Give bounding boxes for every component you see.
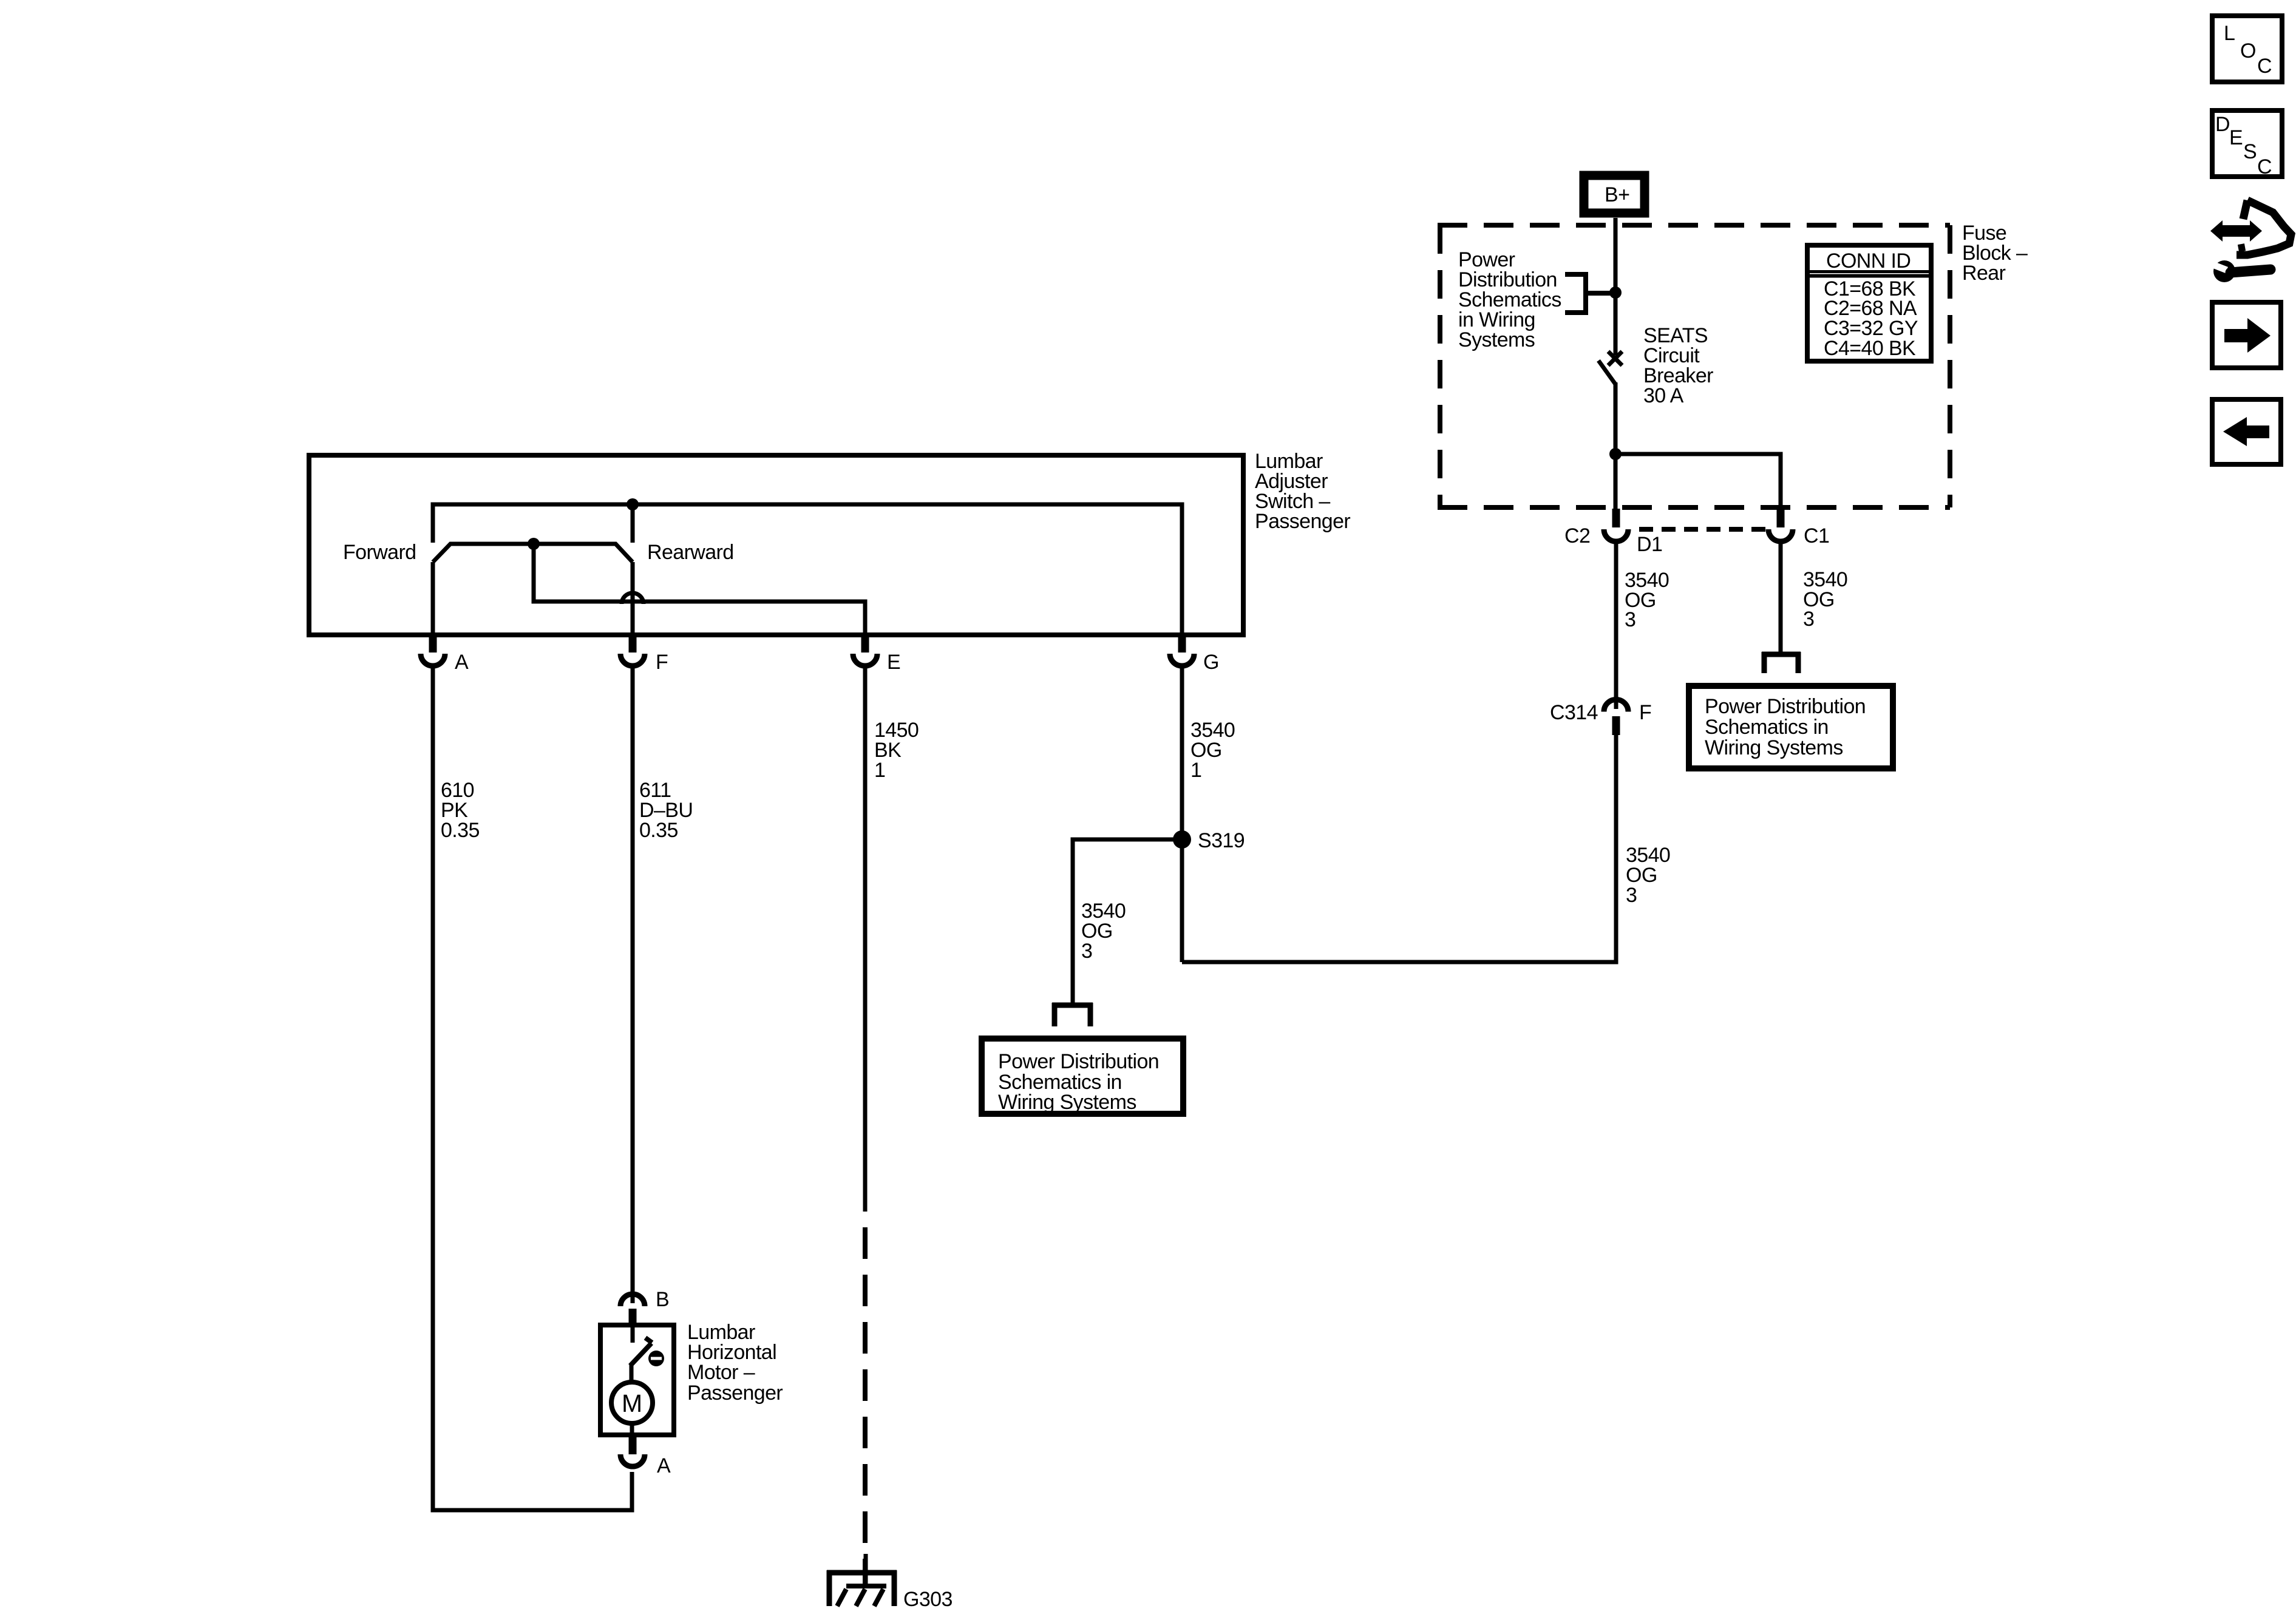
bracket to Power Distribution note	[1565, 274, 1615, 313]
svg-text:3: 3	[1626, 884, 1637, 907]
svg-text:C1: C1	[1804, 524, 1829, 547]
icon service arrow-wrench	[2210, 200, 2291, 282]
label 3540 OG 3 (above C314)	[1625, 569, 1669, 631]
svg-text:D: D	[2215, 113, 2230, 136]
label 3540 OG 3 (below C314)	[1626, 844, 1670, 907]
connector boundary dashed line	[1639, 527, 1768, 532]
svg-text:C2: C2	[1564, 524, 1590, 547]
wire armature to pin F	[631, 562, 635, 635]
svg-text:0.35: 0.35	[441, 819, 480, 842]
svg-text:Rearward: Rearward	[647, 541, 734, 564]
label SEATS Circuit Breaker 30 A	[1643, 324, 1713, 407]
motor pin A	[620, 1436, 671, 1477]
off-page staple (S319 branch)	[1052, 1003, 1093, 1026]
label 3540 OG 3 (under C1)	[1803, 568, 1847, 631]
svg-text:E: E	[2229, 126, 2243, 149]
svg-text:B+: B+	[1605, 183, 1629, 206]
svg-text:A: A	[657, 1454, 671, 1477]
svg-text:B: B	[656, 1288, 669, 1311]
wire S319 branch left	[1073, 839, 1182, 1003]
wire C2 to C314	[1614, 543, 1618, 709]
crossover hop at F wire	[622, 593, 644, 604]
wire armature to pin E	[534, 544, 865, 635]
switch pin E	[853, 634, 900, 674]
icon right-arrow box	[2212, 302, 2281, 368]
svg-text:G303: G303	[903, 1588, 953, 1611]
svg-text:CONN ID: CONN ID	[1826, 249, 1911, 273]
CONN ID table	[1807, 245, 1931, 361]
battery terminal B+	[1584, 175, 1645, 213]
svg-text:Wiring Systems: Wiring Systems	[998, 1091, 1136, 1114]
switch pin G	[1170, 634, 1219, 674]
wire branch to C1	[1615, 454, 1781, 510]
svg-text:0.35: 0.35	[639, 819, 678, 842]
svg-text:M: M	[622, 1389, 642, 1417]
reference box Power Distribution (right)	[1689, 686, 1893, 768]
svg-text:30 A: 30 A	[1643, 384, 1684, 407]
svg-text:E: E	[887, 651, 900, 674]
switch pin A	[421, 634, 469, 674]
motor internal breaker	[630, 1325, 664, 1383]
svg-text:1: 1	[1190, 759, 1201, 782]
svg-text:F: F	[1639, 701, 1651, 724]
svg-text:Motor –: Motor –	[687, 1361, 755, 1384]
svg-text:1: 1	[874, 759, 885, 782]
connector C314 F	[1550, 700, 1651, 736]
svg-text:Forward: Forward	[343, 541, 416, 564]
splice S319	[1173, 830, 1191, 849]
svg-text:Power Distribution: Power Distribution	[998, 1050, 1159, 1073]
reference box Power Distribution (left)	[982, 1039, 1183, 1114]
connector C1 (fuse block)	[1768, 509, 1829, 547]
icon DESC box	[2212, 110, 2282, 178]
svg-text:C314: C314	[1550, 701, 1598, 724]
svg-text:A: A	[455, 651, 469, 674]
connector C2 (fuse block D1)	[1564, 509, 1662, 556]
icon left-arrow box	[2212, 399, 2281, 464]
label 1450 BK 1	[874, 719, 919, 782]
svg-text:S: S	[2243, 140, 2257, 163]
svg-text:Passenger: Passenger	[1255, 510, 1350, 533]
svg-text:Passenger: Passenger	[687, 1381, 783, 1405]
svg-text:D1: D1	[1637, 533, 1662, 556]
wire 611 pin F down to motor	[631, 666, 635, 1303]
fuse block - rear dashed box	[1438, 225, 1950, 507]
wire C1 down to staple	[1779, 543, 1783, 654]
node on armature	[528, 538, 540, 550]
motor pin B	[620, 1288, 669, 1324]
svg-text:Wiring Systems: Wiring Systems	[1705, 736, 1843, 759]
lumbar adjuster switch box	[309, 455, 1243, 635]
svg-text:Schematics in: Schematics in	[1705, 716, 1829, 739]
off-page staple (C1 branch)	[1762, 652, 1801, 673]
node above pin F	[627, 498, 639, 510]
node on B+ wire	[1609, 286, 1622, 299]
label 610 PK 0.35	[441, 779, 480, 842]
svg-text:C4=40 BK: C4=40 BK	[1824, 337, 1916, 360]
lumbar horizontal motor box	[600, 1325, 674, 1435]
switch common top wire to pin G	[433, 504, 1182, 635]
svg-text:S319: S319	[1198, 829, 1245, 852]
wire breaker to C2	[1614, 382, 1618, 510]
svg-text:O: O	[2240, 39, 2256, 63]
svg-text:C: C	[2257, 155, 2272, 178]
wire 1450 pin E down (solid part)	[863, 666, 868, 1212]
motor M	[611, 1382, 653, 1435]
svg-text:3: 3	[1625, 608, 1635, 631]
wire armature to pin A	[431, 562, 435, 635]
svg-text:3: 3	[1803, 608, 1814, 631]
svg-text:3: 3	[1081, 940, 1092, 963]
svg-text:C: C	[2257, 55, 2272, 78]
wire C314 down to corner and left to S319 drop	[1182, 733, 1616, 962]
node breaker branch	[1609, 448, 1622, 460]
wire 610 pin A down	[433, 666, 632, 1510]
svg-text:Power Distribution: Power Distribution	[1705, 695, 1866, 718]
svg-text:Rear: Rear	[1962, 262, 2006, 285]
switch pin F	[620, 634, 668, 674]
wire B+ to breaker	[1614, 218, 1618, 355]
label Lumbar Adjuster Switch - Passenger	[1255, 450, 1350, 533]
label 3540 OG 1	[1190, 719, 1235, 782]
svg-text:L: L	[2224, 22, 2235, 45]
label Power Distribution Schematics in Wiring Systems (fuse block)	[1458, 248, 1561, 351]
label Lumbar Horizontal Motor - Passenger	[687, 1321, 783, 1405]
svg-text:F: F	[656, 651, 668, 674]
ground G303	[827, 1554, 897, 1606]
label 611 D-BU 0.35	[639, 779, 693, 842]
icon LOC box	[2212, 16, 2282, 82]
label Fuse Block - Rear	[1962, 222, 2028, 285]
circuit breaker SEATS 30A	[1598, 351, 1622, 384]
rearward fixed contact	[631, 504, 635, 543]
wire 1450 dashed part to ground	[863, 1227, 868, 1586]
label 3540 OG 3 (S319 branch)	[1081, 900, 1126, 963]
switch armature	[433, 544, 633, 562]
svg-text:G: G	[1203, 651, 1219, 674]
wire 3540 pin G down	[1180, 666, 1184, 962]
svg-text:Systems: Systems	[1458, 328, 1535, 351]
